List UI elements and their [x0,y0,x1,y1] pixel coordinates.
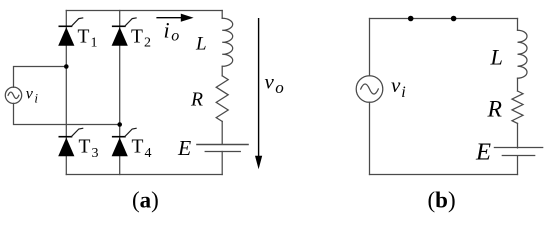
thyristor T1 [58,18,83,46]
node: left bridge midpoint junction dot [64,64,69,69]
svg-text:T: T [79,137,91,158]
battery E (a) bottom plate [205,151,240,153]
svg-text:E: E [475,140,491,166]
wire: (b) left leg below source [369,102,371,174]
svg-text:3: 3 [92,146,99,161]
node: (b) top bus left junction dot [408,16,414,22]
resistor R (a) zigzag [216,76,228,122]
battery E (a) top plate [197,144,248,146]
svg-text:v: v [391,73,401,97]
AC source v_i (a) : circle [5,87,21,103]
AC source v_i (b) : sine symbol [361,84,379,94]
wire: (a) source bottom lead to middle-leg node [14,103,120,124]
svg-text:1: 1 [91,36,98,51]
svg-text:i: i [401,84,405,101]
battery E (b) bottom plate [502,155,534,157]
svg-text:v: v [26,86,34,103]
node: middle bridge midpoint junction dot [117,122,122,127]
wire: (a) middle bridge leg (T2/T4 leg) [119,11,121,175]
wire: (a) right leg above inductor [221,11,223,19]
inductor L (a) coil [222,18,233,66]
wire: (a) bottom bus [66,174,222,176]
wire: (b) bottom bus [370,174,518,176]
svg-text:T: T [131,26,143,47]
wire: (a) resistor to battery [221,121,223,144]
thyristor T4 [112,128,137,156]
svg-text:(b): (b) [428,188,456,213]
svg-text:i: i [34,91,38,106]
output voltage arrow v_o [255,18,262,169]
thyristor T3 [58,128,83,156]
wire: (b) inductor to resistor [517,78,519,91]
resistor R (b) zigzag [512,91,523,123]
svg-text:o: o [275,78,284,97]
svg-text:L: L [195,34,207,55]
wire: (a) top bus [66,10,222,12]
svg-text:R: R [190,88,203,110]
svg-text:2: 2 [144,36,151,51]
svg-text:T: T [132,137,144,158]
wire: (b) right leg above inductor [517,19,519,31]
svg-text:o: o [171,28,179,45]
current arrow i_o [156,14,193,22]
wire: (b) resistor to battery [517,123,519,147]
svg-text:R: R [486,96,502,121]
svg-text:4: 4 [145,146,152,161]
svg-text:i: i [164,18,170,43]
wire: (a) battery to bottom bus [221,152,223,175]
AC source v_i (a) : sine symbol [8,92,19,98]
wire: (b) top bus [370,18,518,20]
wire: (b) left leg above source [369,19,371,76]
inductor L (b) coil [518,30,528,78]
wire: (a) source top lead to left-leg node [14,67,67,88]
wire: (a) inductor to resistor [221,66,223,76]
AC source v_i (b) : circle [356,76,383,103]
svg-text:E: E [177,136,191,160]
thyristor T2 [112,18,137,46]
svg-text:v: v [265,70,275,94]
wire: (b) battery to bottom bus [517,156,519,175]
battery E (b) top plate [494,147,542,149]
node: (b) top bus right junction dot [451,16,457,22]
svg-text:T: T [78,26,90,47]
svg-text:(a): (a) [132,188,159,213]
svg-text:L: L [489,44,502,69]
wire: (a) left bridge leg (T1/T3 leg) [65,11,67,175]
